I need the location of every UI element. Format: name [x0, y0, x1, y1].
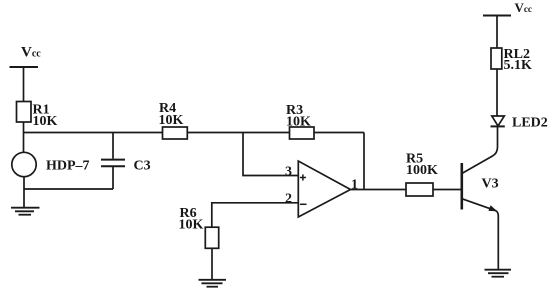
power rail Vcc (right)	[483, 0, 532, 16]
wire R4 to R3	[187, 132, 289, 134]
capacitor C3	[101, 133, 151, 190]
resistor R4	[159, 101, 188, 139]
ground (under transistor emitter)	[485, 270, 512, 277]
svg-text:2: 2	[285, 192, 292, 207]
wire R6 bottom to ground	[211, 248, 213, 279]
wire junction down to op-amp pin 3	[243, 133, 298, 176]
wire R5 to transistor base	[433, 189, 461, 191]
wire Vcc bar to R1	[23, 67, 25, 102]
svg-text:3: 3	[285, 165, 292, 180]
power rail Vcc (left)	[10, 45, 42, 68]
svg-text:100K: 100K	[406, 163, 438, 178]
wire node A to R4 (main top rail)	[24, 132, 163, 134]
svg-text:10K: 10K	[286, 115, 311, 130]
op-amp U1	[285, 161, 358, 217]
svg-text:Vcc: Vcc	[21, 45, 41, 61]
svg-text:5.1K: 5.1K	[504, 58, 533, 73]
svg-text:10K: 10K	[179, 218, 204, 233]
ground (under R6)	[199, 280, 227, 287]
svg-text:C3: C3	[134, 159, 151, 174]
svg-text:Vcc: Vcc	[515, 0, 532, 15]
ground (left, under HDP-7)	[11, 208, 40, 215]
wire R3 to feedback corner	[314, 132, 364, 134]
resistor R6	[179, 206, 219, 248]
wire R1 to node A / sensor top	[23, 122, 25, 152]
wire op-amp output to R5	[351, 189, 407, 191]
resistor R1	[17, 102, 58, 130]
resistor R5	[406, 152, 438, 197]
svg-text:10K: 10K	[159, 113, 184, 128]
wire sensor bottom to ground	[23, 177, 25, 208]
svg-text:V3: V3	[482, 177, 499, 192]
transistor V3	[462, 127, 499, 269]
wire Vcc bar to RL2	[496, 16, 498, 49]
wire feedback down to output node	[363, 133, 365, 190]
wire RL2 to LED2	[496, 69, 498, 116]
resistor R3	[286, 103, 314, 139]
wire sensor bottom node to C3 bottom	[24, 188, 113, 190]
svg-text:10K: 10K	[33, 114, 58, 129]
svg-text:HDP–7: HDP–7	[46, 159, 90, 174]
sensor HDP-7	[12, 152, 90, 176]
svg-text:LED2: LED2	[512, 116, 548, 131]
wire R6 to op-amp pin 2	[212, 203, 298, 227]
resistor RL2	[491, 47, 532, 73]
LED LED2	[491, 116, 548, 131]
